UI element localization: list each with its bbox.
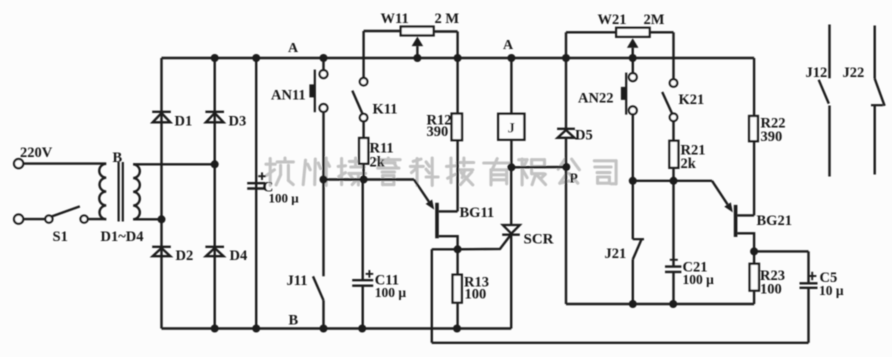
svg-text:2k: 2k bbox=[681, 156, 697, 172]
svg-text:100: 100 bbox=[760, 282, 782, 298]
svg-text:W11: W11 bbox=[381, 11, 409, 27]
svg-text:P: P bbox=[570, 171, 578, 186]
svg-text:AN22: AN22 bbox=[578, 91, 613, 107]
svg-text:J11: J11 bbox=[287, 273, 308, 289]
svg-text:10 μ: 10 μ bbox=[819, 283, 844, 298]
svg-text:BG11: BG11 bbox=[460, 205, 495, 221]
svg-text:100: 100 bbox=[465, 287, 487, 303]
svg-text:W21: W21 bbox=[598, 12, 627, 28]
svg-text:D1: D1 bbox=[175, 114, 193, 130]
svg-text:A: A bbox=[288, 41, 299, 56]
svg-text:J22: J22 bbox=[843, 65, 865, 81]
svg-text:B: B bbox=[289, 313, 299, 329]
svg-text:100 μ: 100 μ bbox=[269, 191, 300, 206]
svg-text:D5: D5 bbox=[575, 128, 593, 144]
svg-text:AN11: AN11 bbox=[271, 88, 306, 104]
svg-text:390: 390 bbox=[761, 129, 783, 145]
svg-text:100 μ: 100 μ bbox=[375, 285, 407, 300]
svg-text:A: A bbox=[503, 38, 514, 53]
svg-text:D3: D3 bbox=[229, 114, 247, 130]
svg-text:J: J bbox=[508, 121, 516, 137]
svg-text:2 M: 2 M bbox=[435, 11, 460, 27]
svg-text:D2: D2 bbox=[176, 248, 194, 264]
svg-text:390: 390 bbox=[427, 124, 449, 140]
svg-text:K11: K11 bbox=[373, 102, 398, 118]
svg-text:S1: S1 bbox=[53, 229, 68, 245]
svg-text:J21: J21 bbox=[605, 246, 627, 262]
svg-text:2M: 2M bbox=[644, 12, 665, 28]
svg-text:2k: 2k bbox=[370, 155, 386, 171]
svg-text:100 μ: 100 μ bbox=[683, 272, 715, 287]
svg-text:220V: 220V bbox=[20, 145, 53, 161]
svg-text:J12: J12 bbox=[806, 65, 828, 81]
svg-text:BG21: BG21 bbox=[757, 213, 792, 229]
svg-text:B: B bbox=[113, 150, 123, 166]
svg-text:SCR: SCR bbox=[524, 232, 554, 248]
svg-text:K21: K21 bbox=[679, 92, 705, 108]
svg-text:D1~D4: D1~D4 bbox=[101, 229, 144, 245]
svg-text:D4: D4 bbox=[230, 248, 248, 264]
